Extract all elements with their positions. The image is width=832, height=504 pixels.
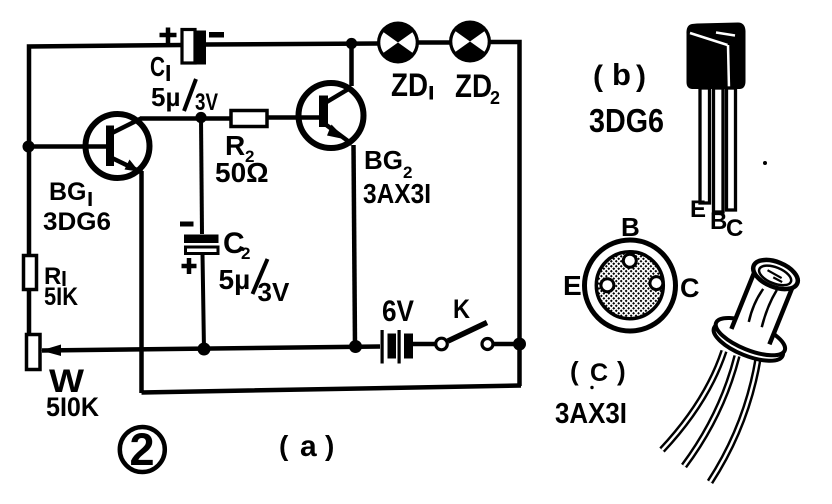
svg-text:3AX3I: 3AX3I (555, 398, 627, 430)
switch K (436, 323, 493, 350)
svg-text:C: C (680, 273, 700, 303)
label C2 (223, 227, 250, 263)
wire switch to right vertical (493, 342, 520, 347)
svg-text:3DG6: 3DG6 (43, 208, 111, 236)
wire battery to switch (413, 342, 436, 347)
label (b) (593, 57, 646, 93)
label C2 value 5u/3V (219, 259, 290, 307)
label R1 (44, 263, 66, 290)
label C1 minus sign (209, 32, 224, 38)
svg-text:3AX3I: 3AX3I (363, 178, 431, 209)
svg-text:B: B (710, 208, 727, 235)
svg-text:BG: BG (49, 178, 87, 206)
svg-text:K: K (453, 294, 470, 324)
node junction BG2 emitter bottom (349, 340, 362, 353)
svg-text:(: ( (279, 430, 289, 461)
svg-text:C: C (726, 215, 743, 242)
svg-text:5µ: 5µ (219, 264, 251, 295)
svg-text:3DG6: 3DG6 (589, 102, 664, 139)
svg-text:5I0K: 5I0K (46, 392, 99, 422)
label ZD1 (391, 67, 433, 103)
label ZD2 (455, 68, 500, 108)
transistor BG2 (299, 83, 364, 148)
node junction C2 bottom (198, 343, 211, 356)
label C1 (150, 51, 170, 82)
wire left vertical + top-left corner (29, 45, 183, 335)
label (a) (279, 430, 334, 463)
label BG1 (49, 178, 92, 206)
3AX31 can body (709, 249, 815, 369)
resistor R2 (231, 111, 267, 127)
label C2 plus sign (182, 258, 197, 274)
svg-text:C: C (150, 51, 165, 82)
svg-text:ZD: ZD (455, 68, 492, 104)
wire right vertical (490, 42, 520, 386)
svg-text:): ) (636, 60, 646, 93)
wire R2 to BG2 base (267, 115, 322, 120)
svg-text:5IK: 5IK (44, 283, 78, 311)
svg-text:ZD: ZD (391, 67, 428, 103)
svg-text:6V: 6V (382, 295, 414, 328)
node junction base of BG1 (23, 141, 35, 153)
label C1 value 5u/3V (151, 79, 218, 116)
wire C2 branch upper (201, 118, 202, 235)
3AX31 can leads (662, 351, 758, 482)
svg-text:3V: 3V (195, 89, 218, 116)
capacitor C2 (184, 235, 219, 254)
wire BG2 emitter down (354, 145, 356, 346)
wire BG1 base (29, 144, 109, 149)
3DG6 package body (686, 23, 745, 90)
resistor R1 (24, 256, 37, 290)
svg-text:): ) (325, 430, 334, 461)
stray mark (763, 161, 767, 165)
svg-text:BG: BG (364, 145, 403, 175)
svg-text:): ) (617, 356, 626, 386)
lamp ZD2 (449, 21, 491, 63)
node junction switch/right vertical (513, 338, 526, 351)
label (C) (570, 356, 626, 387)
svg-text:2: 2 (490, 88, 500, 108)
capacitor C1 (182, 30, 206, 65)
label BG2 (364, 145, 412, 182)
svg-text:E: E (690, 196, 706, 223)
node junction C2 branch (195, 112, 206, 123)
svg-text:C: C (590, 359, 608, 387)
label C2 minus sign (180, 222, 194, 227)
label figure number 2 (circled) (120, 424, 165, 475)
label C1 plus sign (160, 28, 177, 44)
svg-text:50Ω: 50Ω (215, 157, 269, 188)
stray mark 2 (590, 386, 593, 389)
battery 6V (381, 330, 414, 364)
wire BG1 emitter down + bottom bus (142, 171, 522, 393)
potentiometer W (27, 335, 41, 370)
svg-text:a: a (300, 430, 317, 463)
wire C2 branch lower (203, 254, 205, 351)
wire wiper bus (arrow to battery) (42, 347, 380, 351)
node junction top (BG2 collector to lamps) (346, 38, 357, 49)
wire BG2 collector up (349, 44, 354, 87)
svg-text:5µ: 5µ (151, 82, 180, 112)
svg-text:b: b (612, 57, 631, 92)
svg-text:B: B (621, 212, 640, 242)
svg-text:E: E (563, 270, 582, 301)
svg-text:3V: 3V (258, 277, 290, 307)
wire top bus (C1 to right corner) (206, 44, 379, 45)
transistor BG1 (86, 114, 150, 178)
svg-text:2: 2 (241, 244, 250, 263)
svg-text:2: 2 (130, 424, 155, 475)
svg-text:(: ( (593, 60, 603, 93)
wire between lamps (418, 40, 450, 45)
lamp ZD1 (377, 22, 419, 64)
wiper arrowhead (41, 345, 61, 357)
3DG6 package legs (700, 88, 736, 212)
3AX31 bottom view (585, 240, 676, 331)
wire BG1 collector to R2 (140, 116, 231, 121)
label R2 (225, 130, 254, 166)
svg-text:(: ( (570, 356, 579, 386)
